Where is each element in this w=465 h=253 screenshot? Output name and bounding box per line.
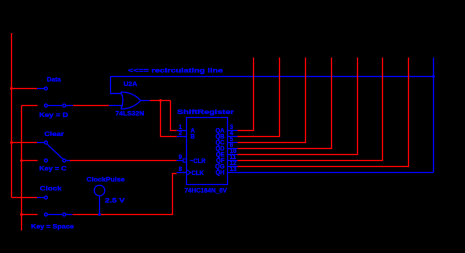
wire: Clock contact lead	[12, 197, 44, 199]
wire: QC to display column 3	[238, 58, 306, 143]
svg-text:74HC164N_6V: 74HC164N_6V	[185, 188, 228, 195]
inversion bubble on ~CLR pin	[183, 159, 186, 162]
svg-text:ShiftRegister: ShiftRegister	[177, 108, 235, 116]
pin stub QD	[228, 148, 238, 150]
wire: OR gate output	[141, 99, 171, 102]
pin stub QA	[228, 130, 238, 132]
svg-text:Data: Data	[47, 76, 62, 83]
svg-text:Clock: Clock	[40, 184, 63, 192]
wire: QA to display column 1	[238, 58, 254, 131]
pin stub QC	[228, 142, 238, 144]
junction: recirculating line tap	[432, 75, 435, 78]
wire: Clear contact lead	[10, 141, 44, 144]
svg-text:QH: QH	[216, 171, 225, 177]
svg-text:B: B	[191, 135, 196, 141]
wire: left supply rail	[11, 33, 13, 198]
svg-text:U2A: U2A	[124, 81, 138, 88]
wire: OR output to pin 2 (B)	[161, 101, 187, 137]
svg-text:~CLR: ~CLR	[190, 159, 207, 165]
svg-text:Key = C: Key = C	[39, 165, 66, 173]
wire: QD to display column 4	[238, 58, 332, 149]
switch S1 Data (Key = D)	[44, 87, 65, 107]
wire: switch common rail	[21, 106, 23, 231]
pin stub QE	[228, 154, 238, 156]
wire: Data switch to OR gate input B	[22, 105, 123, 107]
switch S2 Clear (Key = C)	[44, 141, 65, 162]
svg-text:CLK: CLK	[192, 171, 205, 177]
svg-text:Clear: Clear	[44, 130, 64, 138]
wire: QE to display column 5	[238, 58, 358, 155]
wire: Data contact lead	[10, 87, 44, 90]
clock source V1 ClockPulse 2.5 V	[94, 185, 105, 214]
op-amp U2A OR gate 74LS32N	[121, 92, 141, 109]
shift register U1 74HC164N_6V	[187, 118, 228, 185]
svg-text:74LS32N: 74LS32N	[115, 110, 144, 117]
switch S3 Clock (Key = Space)	[44, 196, 65, 216]
svg-text:Key = Space: Key = Space	[31, 223, 74, 230]
svg-text:Key = D: Key = D	[39, 111, 68, 119]
clock triangle on CLK pin	[187, 170, 191, 175]
wire: Clear switch to ~CLR pin	[20, 159, 183, 162]
svg-text:<<== recirculating line: <<== recirculating line	[128, 66, 224, 74]
svg-text:ClockPulse: ClockPulse	[87, 176, 125, 183]
pin stub QF	[228, 160, 238, 162]
pin stub QB	[228, 136, 238, 138]
wire: QB to display column 2	[238, 58, 280, 137]
wire: recirculating line into gate input A	[111, 77, 123, 94]
wire: OR output to pin 1 (A)	[171, 101, 187, 131]
pin stub QH	[228, 172, 238, 174]
wire: clock switch to CLK pin	[20, 173, 186, 216]
wire: QF to display column 6	[238, 58, 383, 161]
wire: QG to display column 7	[238, 58, 409, 167]
wire: recirculating feedback line (blue)	[111, 58, 434, 173]
junction: clock source to clock wire	[98, 213, 101, 216]
svg-text:2.5 V: 2.5 V	[105, 196, 126, 204]
pin stub QG	[228, 166, 238, 168]
